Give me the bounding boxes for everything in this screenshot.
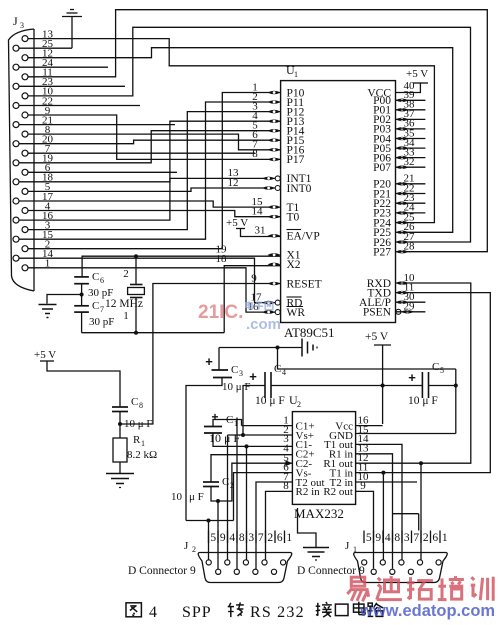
U1 pin 3 P12 symbol: [268, 110, 281, 114]
ground G1 (top, J3 pin 25): [70, 9, 74, 11]
U1 pin 25 P24 symbol: [396, 221, 409, 225]
svg-text:J: J: [184, 540, 189, 552]
op-amp U2 box: [292, 412, 355, 505]
U1 pin 28 P27 symbol: [396, 250, 409, 254]
svg-text:J: J: [345, 540, 350, 552]
J3 pin 16 circle: [13, 217, 19, 223]
wire net J3-13 to P24: [28, 39, 434, 223]
svg-text:2: 2: [297, 400, 301, 409]
svg-text:2: 2: [423, 532, 429, 544]
svg-text:PSEN: PSEN: [363, 307, 392, 319]
J3 pin 21 circle: [13, 122, 19, 128]
J1 pin 5 number: [363, 531, 365, 544]
svg-text:10 μ F: 10 μ F: [222, 381, 251, 393]
junction T1in J1pin4: [381, 471, 385, 475]
svg-text:9: 9: [251, 272, 257, 284]
capacitor C8: [112, 406, 128, 408]
J1 pin 4 number: [382, 531, 384, 544]
junction crystal-bottom: [134, 331, 138, 335]
U1 pin 33 P06 symbol: [396, 156, 409, 160]
junction Vs+ C4: [241, 433, 245, 437]
U1 pin 37 stub: [396, 118, 426, 120]
U1 pin 38 P01 symbol: [396, 108, 409, 112]
wire J2pin4 drop: [227, 435, 229, 560]
junction C5 right: [454, 384, 458, 388]
svg-text:12: 12: [228, 177, 239, 189]
svg-text:RESET: RESET: [287, 278, 322, 290]
svg-text:+5 V: +5 V: [34, 349, 56, 361]
wire RESET net: [120, 284, 281, 425]
U1 pin 37 P02 symbol: [396, 118, 409, 122]
wire Vs+ stub: [228, 434, 293, 436]
wire net J3-12 to P25: [28, 48, 453, 233]
wire R1 to ground: [119, 462, 121, 473]
J1 pin circle bottom 4: [427, 569, 432, 574]
J3 pin 9 circle: [22, 112, 28, 118]
svg-text:J: J: [13, 14, 18, 28]
wire C3 bottom rail: [186, 520, 234, 522]
wire T2in stub right: [356, 481, 417, 483]
U1 pin 24 P23 symbol: [396, 211, 409, 215]
U1 pin 21 P20 symbol: [396, 182, 409, 186]
U1 ALE stub: [396, 301, 426, 303]
svg-text:MAX232: MAX232: [294, 506, 344, 521]
U1 pin 9 RESET symbol: [268, 282, 281, 286]
svg-text:10: 10: [171, 491, 183, 503]
svg-text:28: 28: [404, 241, 416, 253]
U1 pin 14 T0 symbol: [268, 215, 281, 219]
junction C1- J2pin3: [245, 444, 249, 448]
svg-text:D Connector 9: D Connector 9: [297, 565, 365, 577]
J2 pin 6 number: [274, 531, 276, 544]
svg-text:30 pF: 30 pF: [89, 316, 114, 328]
svg-text:5: 5: [440, 366, 444, 375]
U1 pin 10 RXD symbol: [396, 281, 409, 285]
J3 pin 14 circle: [13, 255, 19, 261]
U1 pin 30 ALE/P symbol: [396, 300, 409, 304]
U1 pin 35 P04 symbol: [396, 137, 409, 141]
J2 pin circle bottom 2: [234, 569, 239, 574]
ground G3 (under R1): [106, 473, 134, 475]
svg-text:2: 2: [123, 268, 129, 280]
svg-text:1: 1: [286, 532, 292, 544]
svg-text:7: 7: [100, 305, 104, 314]
svg-text:31: 31: [255, 225, 266, 237]
wire J3-23 stub: [19, 85, 125, 87]
svg-text:EA/VP: EA/VP: [287, 231, 320, 243]
J3 pin 7 circle: [22, 150, 28, 156]
svg-text:+5 V: +5 V: [406, 68, 428, 80]
J2 pin circle bottom 1: [216, 569, 221, 574]
J1 pin 6 number: [430, 531, 432, 544]
J2 pin circle top 1: [206, 560, 211, 565]
svg-text:INT0: INT0: [287, 183, 312, 195]
svg-text:18: 18: [216, 253, 228, 265]
J2 pin 1 number: [284, 531, 286, 544]
svg-text:8: 8: [139, 401, 143, 410]
wire J3-21 stub: [19, 124, 175, 126]
J1 pin circle top 5: [436, 560, 441, 565]
J3 pin 20 circle: [13, 141, 19, 147]
U1 pin 21 stub: [396, 183, 426, 185]
wire J3-17 to T1: [19, 201, 281, 207]
svg-text:10 μ F: 10 μ F: [408, 395, 438, 407]
U1 pin 2 P11 symbol: [268, 100, 281, 104]
svg-text:C: C: [432, 361, 439, 373]
U1 pin 39 P00 symbol: [396, 99, 409, 103]
U2 pin5 arrow: [285, 460, 292, 466]
svg-text:T0: T0: [287, 212, 300, 224]
junction reset RC: [118, 422, 122, 426]
junction X1-crystal: [134, 254, 138, 258]
J3 pin 2 circle: [22, 246, 28, 252]
U1 pin 36 stub: [396, 128, 426, 130]
J1 pin circle bottom 3: [408, 569, 413, 574]
J3 pin 11 circle: [22, 74, 28, 80]
svg-text:4: 4: [229, 532, 235, 544]
wire J3-7 stub: [28, 152, 255, 154]
U1 pin 23 stub: [396, 202, 426, 204]
svg-text:14: 14: [252, 206, 264, 218]
J3 pin 4 circle: [22, 208, 28, 214]
svg-text:9: 9: [375, 532, 381, 544]
wire J3-2 to P10: [28, 93, 281, 249]
U1 pin 13 INT1 symbol: [262, 177, 275, 181]
svg-text:9: 9: [220, 532, 226, 544]
watermark 21IC: [198, 301, 281, 333]
wire C5 to GND pin: [455, 369, 457, 434]
svg-text:2: 2: [192, 545, 196, 554]
U1 pin 32 P07 symbol: [396, 165, 409, 169]
U1 PSEN stub: [396, 311, 426, 313]
svg-text:1: 1: [123, 310, 129, 322]
svg-text:8: 8: [394, 532, 400, 544]
junction +5V cap rail: [381, 384, 385, 388]
U1 pin 36 P03 symbol: [396, 127, 409, 131]
U1 pin 1 P10 symbol: [268, 91, 281, 95]
wire R1in step: [393, 513, 419, 515]
junction C3 rail: [276, 346, 280, 350]
svg-text:4: 4: [149, 604, 157, 621]
U1 pin 38 stub: [396, 109, 426, 111]
svg-text:+: +: [205, 354, 213, 369]
J3 pin 19 circle: [13, 160, 19, 166]
wire J3-5 to INT0: [28, 188, 281, 191]
J1 pin circle bottom 1: [371, 569, 376, 574]
svg-text:1: 1: [294, 70, 298, 79]
wire J3-20 to P15: [19, 140, 281, 144]
svg-text:C: C: [92, 271, 99, 283]
svg-text:1: 1: [353, 545, 357, 554]
J2 pin circle bottom 3: [253, 569, 258, 574]
U1 pin 35 stub: [396, 138, 426, 140]
J3 pin 24 circle: [13, 64, 19, 70]
ground G2 (crystal): [47, 295, 82, 304]
wire RXD to R1out: [356, 283, 471, 463]
wire J3-1 to WR: [28, 268, 281, 312]
wire Vs- net: [234, 473, 293, 521]
J3 pin 18 circle: [13, 179, 19, 185]
svg-text:5: 5: [366, 532, 372, 544]
svg-text:6: 6: [277, 532, 283, 544]
wire gnd rail right: [278, 348, 456, 370]
svg-text:WR: WR: [287, 307, 306, 319]
svg-text:8: 8: [252, 148, 258, 160]
svg-text:+5 V: +5 V: [365, 331, 389, 343]
J1 pin circle top 4: [417, 560, 422, 565]
svg-text:6: 6: [432, 532, 438, 544]
svg-text:P27: P27: [373, 247, 391, 259]
wire R1in to J1pin8: [356, 454, 393, 569]
svg-text:R: R: [133, 434, 141, 446]
crystal Y1: [130, 284, 143, 286]
J3 pin 3 circle: [22, 227, 28, 233]
U1 pin 16 WR symbol: [262, 310, 275, 314]
U1 pin 19 X1 symbol: [268, 253, 281, 257]
svg-text:SPP: SPP: [182, 604, 212, 621]
U1 pin 11 TXD symbol: [396, 291, 409, 295]
J3 pin 1 circle: [22, 265, 28, 271]
connector J1 body: [354, 553, 448, 583]
watermark edatop: [347, 576, 495, 620]
svg-text:3: 3: [248, 532, 254, 544]
junction rail J2pin5: [207, 519, 211, 523]
J2 pin circle top 3: [243, 560, 248, 565]
junction C6-C7: [80, 293, 84, 297]
svg-text:10 μ F: 10 μ F: [209, 431, 240, 445]
J1 pin circle top 2: [380, 560, 385, 565]
J3 pin 22 circle: [13, 103, 19, 109]
svg-text:21IC.: 21IC.: [198, 302, 243, 323]
wire J3-9 to P17: [28, 115, 281, 159]
wire crystal bottom rail: [82, 332, 225, 334]
J2 pin 4 number: [227, 531, 229, 544]
connector J2 body: [198, 553, 292, 583]
svg-text:10 μ F: 10 μ F: [124, 418, 153, 430]
svg-text:μ F: μ F: [189, 491, 204, 503]
svg-text:C: C: [131, 396, 138, 408]
svg-text:5: 5: [210, 532, 216, 544]
U1 pin 33 stub: [396, 157, 426, 159]
svg-text:C: C: [226, 414, 233, 426]
wire T1out to J1pin3: [356, 444, 402, 560]
svg-text:4: 4: [385, 532, 391, 544]
svg-text:12 MHz: 12 MHz: [105, 298, 143, 310]
J3 pin 17 circle: [13, 198, 19, 204]
wire R2out to J1pin9: [356, 491, 374, 568]
wire Vcc stub: [356, 425, 383, 427]
U1 pin 22 stub: [396, 193, 426, 195]
svg-text:.com: .com: [246, 316, 281, 333]
wire J3-22 stub: [19, 105, 140, 107]
U1 pin 26 stub: [396, 231, 407, 233]
wire J3-19 to P14: [19, 131, 281, 163]
svg-text:8: 8: [239, 532, 245, 544]
svg-text:AT89C51: AT89C51: [284, 325, 335, 340]
U1 pin 27 P26 symbol: [396, 240, 409, 244]
svg-text:R2 out: R2 out: [323, 486, 353, 498]
wire TXD to T1in: [356, 293, 491, 473]
wire J3-24 stub: [19, 66, 108, 68]
svg-text:32: 32: [404, 156, 415, 168]
svg-text:1: 1: [442, 532, 448, 544]
svg-text:3: 3: [20, 21, 24, 30]
J1 pin 2 number: [420, 531, 422, 544]
U1 pin 28 stub: [396, 251, 407, 253]
wire J3-6 stub: [28, 171, 177, 173]
wire J1pin4 drop: [382, 473, 384, 561]
U1 pin 24 stub: [396, 212, 426, 214]
wire J3-16 to P13: [19, 121, 281, 220]
J2 pin circle top 2: [225, 560, 230, 565]
svg-text:7: 7: [258, 532, 264, 544]
wire J2pin5 drop: [208, 521, 210, 561]
J1 pin circle bottom 2: [390, 569, 395, 574]
U1 pin 8 P17 symbol: [268, 158, 281, 162]
svg-text:C: C: [274, 363, 281, 375]
svg-text:30 pF: 30 pF: [88, 287, 113, 299]
svg-text:X2: X2: [287, 259, 301, 271]
J1 pin 9 number: [373, 531, 375, 544]
svg-text:RS 232: RS 232: [250, 604, 305, 621]
svg-text:D Connector 9: D Connector 9: [128, 565, 196, 577]
svg-text:C: C: [92, 300, 99, 312]
svg-text:www.edatop.com: www.edatop.com: [359, 602, 495, 620]
caption: [126, 603, 141, 617]
U1 pin 26 P25 symbol: [396, 231, 409, 235]
U1 pin 29 PSEN symbol: [401, 310, 414, 314]
wire J2pin3 drop: [246, 446, 248, 560]
J1 pin 8 number: [392, 531, 394, 544]
svg-text:10 μ F: 10 μ F: [255, 395, 285, 407]
junction C2 J2pin9: [216, 499, 220, 503]
svg-text:1: 1: [141, 439, 145, 448]
J1 pin 1 number: [439, 531, 441, 544]
U1 pin 18 X2 symbol: [268, 263, 281, 267]
U1 pin 31 EAVP symbol: [268, 234, 281, 238]
U1 pin 39 stub: [396, 99, 426, 101]
svg-text:7: 7: [413, 532, 419, 544]
U1 pin 27 stub: [396, 241, 407, 243]
svg-text:C: C: [222, 476, 229, 488]
wire J3-15 to P11: [19, 102, 281, 239]
wire net J3-10 to P26: [28, 27, 471, 242]
J1 pin circle top 1: [362, 560, 367, 565]
svg-text:8.2 kΩ: 8.2 kΩ: [127, 449, 157, 461]
wire R2in to J2pin2: [266, 491, 293, 560]
J3 pin 6 circle: [22, 169, 28, 175]
capacitor C7: [74, 305, 89, 307]
op-amp U1 box: [281, 81, 396, 323]
J2 pin circle top 5: [281, 560, 286, 565]
svg-text:+: +: [249, 369, 257, 384]
wire net J3-11 to P27: [28, 10, 487, 252]
capacitor C6: [74, 276, 89, 278]
svg-text:+5 V: +5 V: [226, 217, 248, 229]
U1 pin 32 stub: [396, 166, 426, 168]
U1 pin 34 stub: [396, 147, 426, 149]
U1 pin 6 P15 symbol: [268, 138, 281, 142]
J2 pin 2 number: [265, 531, 267, 544]
svg-text:3: 3: [404, 532, 410, 544]
J3 pin 15 circle: [13, 236, 19, 242]
svg-text:P17: P17: [287, 154, 305, 166]
J1 pin circle top 3: [399, 560, 404, 565]
wire J3-4 to T0: [28, 211, 281, 217]
U1 pin 4 P13 symbol: [268, 119, 281, 123]
U1 pin 15 T1 symbol: [268, 205, 281, 209]
connector J3 body: [9, 29, 35, 291]
U1 pin 23 P22 symbol: [396, 201, 409, 205]
svg-text:P07: P07: [373, 162, 391, 174]
J2 pin circle top 4: [262, 560, 267, 565]
wire J2pin9 drop: [217, 501, 219, 570]
U1 pin 17 RD symbol: [262, 301, 275, 305]
ground G4 (rotated, right of C3): [301, 339, 303, 357]
svg-text:2: 2: [267, 532, 273, 544]
resistor R1: [113, 438, 127, 462]
wire X1 net: [82, 256, 281, 277]
J3 pin 13 circle: [22, 36, 28, 42]
J3 pin 5 circle: [22, 188, 28, 194]
wire J3-8 to P16: [28, 134, 281, 150]
J1 pin 7 number: [411, 531, 413, 544]
U1 pin 34 P05 symbol: [396, 146, 409, 150]
U1 pin 7 P16 symbol: [268, 148, 281, 152]
U1 pin 22 P21 symbol: [396, 192, 409, 196]
wire J3-3 to P12: [28, 112, 281, 230]
J3 pin 10 circle: [22, 93, 28, 99]
wire C1+ stub: [242, 425, 293, 427]
wire X2 net: [224, 266, 280, 333]
J2 pin 7 number: [255, 531, 257, 544]
J2 pin 9 number: [217, 531, 219, 544]
J1 pin 3 number: [401, 531, 403, 544]
svg-text:C: C: [231, 364, 238, 376]
J3 pin 12 circle: [22, 55, 28, 61]
wire T2out to J2pin7: [256, 482, 292, 570]
svg-text:+: +: [408, 370, 416, 385]
wire J1pin2 drop: [420, 463, 422, 560]
wire J2pin8 drop: [236, 418, 238, 570]
svg-text:3: 3: [239, 369, 243, 378]
J3 pin 8 circle: [22, 131, 28, 137]
capacitor C2: [203, 481, 219, 483]
ground G5 (J1): [298, 508, 317, 547]
svg-text:R2 in: R2 in: [296, 486, 321, 498]
J2 pin circle bottom 4: [271, 569, 276, 574]
wire J3-18 to INT1: [19, 178, 281, 181]
wire C3 top rail: [219, 347, 302, 349]
U1 pin 5 P14 symbol: [268, 129, 281, 133]
U1 pin 25 stub: [396, 222, 407, 224]
junction R1out J1pin2: [419, 461, 423, 465]
J2 pin 3 number: [246, 531, 248, 544]
wire J3 pin25 to ground: [19, 47, 72, 49]
svg-text:6: 6: [100, 276, 104, 285]
U1 pin 12 INT0 symbol: [262, 186, 275, 190]
J3 pin 25 circle: [13, 45, 19, 51]
svg-text:4: 4: [282, 368, 286, 377]
J2 pin 8 number: [236, 531, 238, 544]
J2 pin 5 number: [208, 531, 210, 544]
J3 pin 23 circle: [13, 83, 19, 89]
wire J3-14 to RD: [19, 258, 281, 302]
